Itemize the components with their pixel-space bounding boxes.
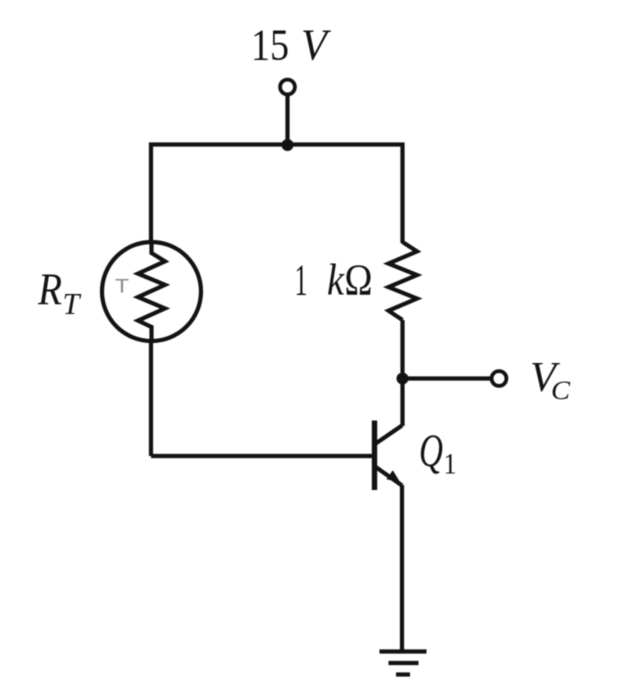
terminal VC xyxy=(492,371,507,386)
svg-text:V: V xyxy=(301,21,332,70)
terminal 15V xyxy=(280,80,295,95)
node top junction xyxy=(282,139,294,151)
wire emitter to ground xyxy=(400,485,404,652)
wire base rail xyxy=(151,454,373,458)
label RT xyxy=(37,264,82,322)
transistor Q1 xyxy=(375,421,403,491)
label Q1 xyxy=(419,425,457,481)
resistor 1kΩ xyxy=(389,242,418,320)
svg-text:1: 1 xyxy=(444,448,457,481)
svg-text:R: R xyxy=(37,264,62,315)
wire 15V terminal to top rail xyxy=(285,95,289,147)
wire collector node to VC terminal xyxy=(403,376,492,380)
label VC xyxy=(530,355,571,405)
svg-text:Q: Q xyxy=(419,425,443,477)
node collector junction xyxy=(397,373,409,385)
label 1 kΩ xyxy=(295,256,373,305)
svg-text:T: T xyxy=(63,286,83,321)
svg-text:T: T xyxy=(115,277,129,298)
ground xyxy=(380,652,427,675)
thermistor RT xyxy=(102,242,201,341)
label 15 V xyxy=(251,21,332,70)
svg-text:k: k xyxy=(327,256,345,305)
wire top rail with left and right corners xyxy=(151,145,403,244)
wire resistor to collector xyxy=(400,320,404,426)
svg-text:1: 1 xyxy=(295,256,308,305)
wire thermistor to base rail xyxy=(149,341,153,456)
svg-text:C: C xyxy=(551,376,571,405)
svg-text:15: 15 xyxy=(251,21,289,70)
svg-text:Ω: Ω xyxy=(345,256,373,305)
